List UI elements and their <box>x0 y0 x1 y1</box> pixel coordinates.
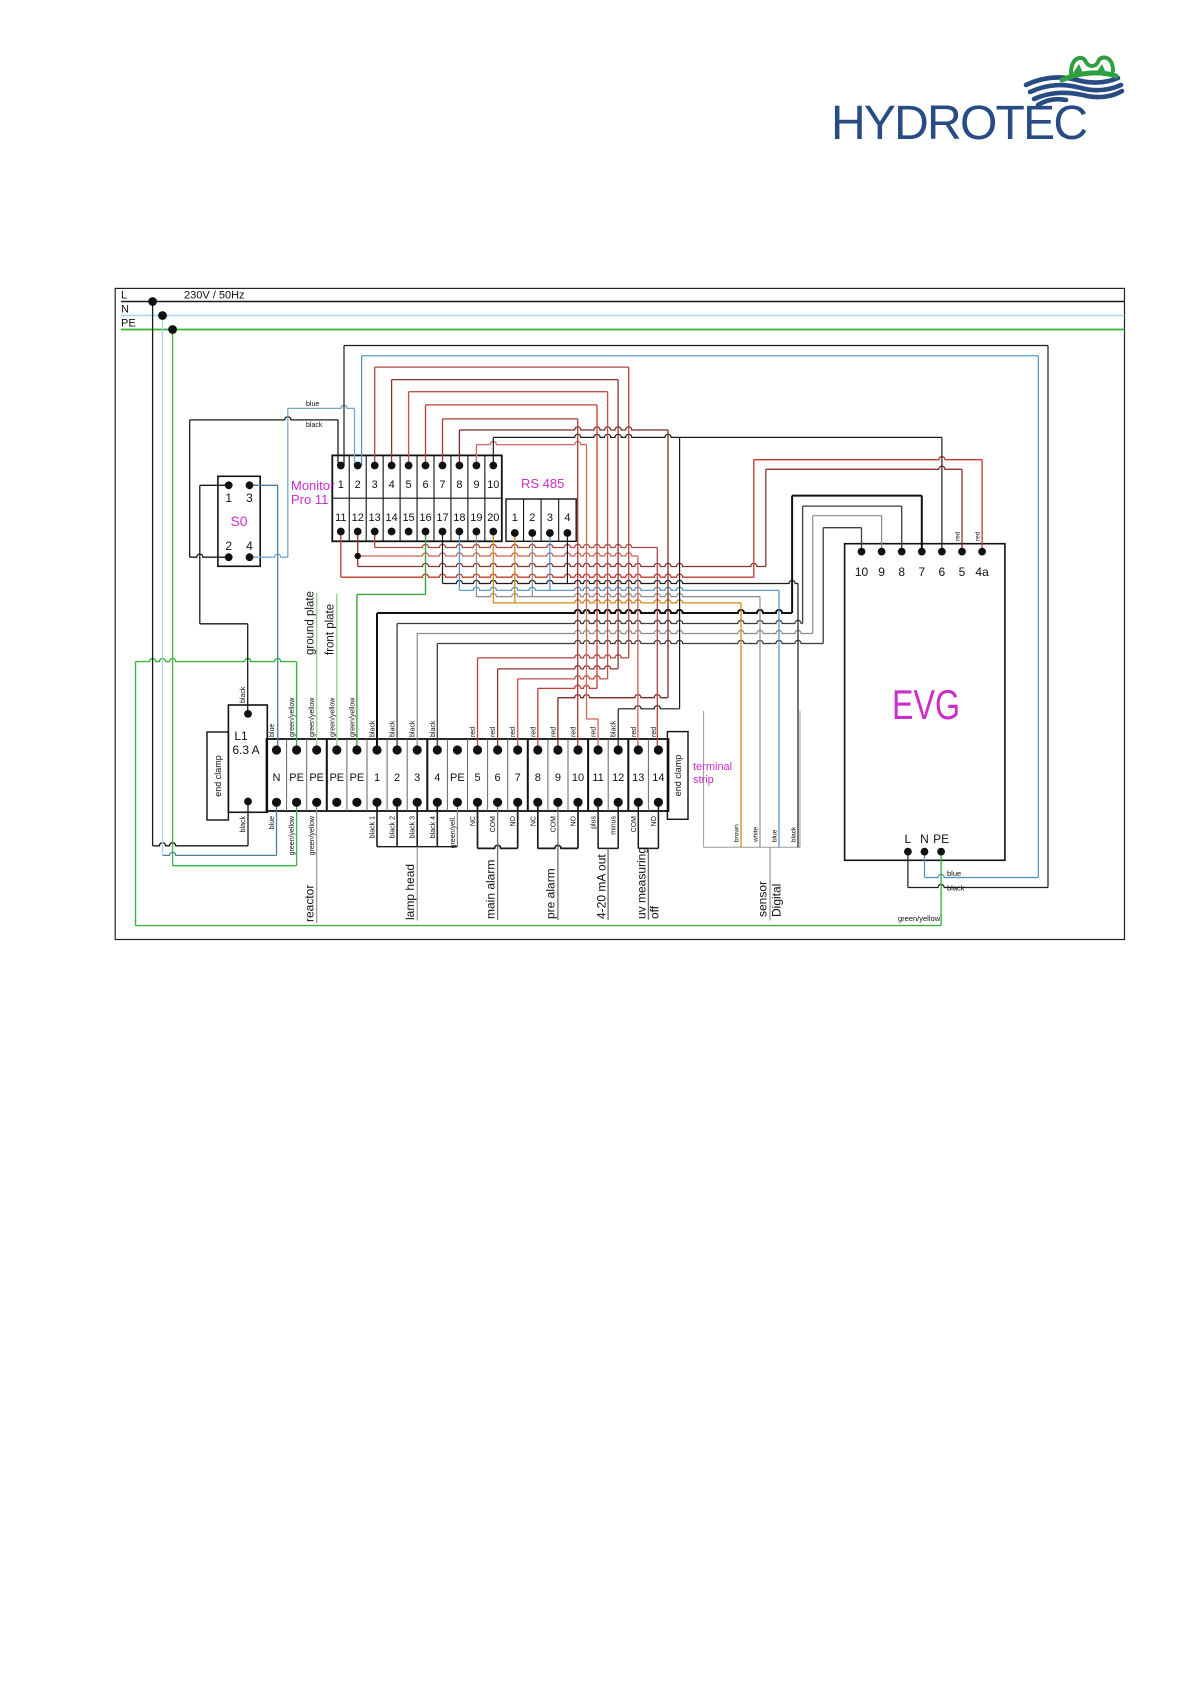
svg-text:red: red <box>490 727 497 737</box>
svg-text:black 1: black 1 <box>370 816 377 838</box>
svg-text:7: 7 <box>918 565 925 579</box>
svg-text:2: 2 <box>355 479 361 491</box>
svg-text:green/yellow: green/yellow <box>289 815 296 855</box>
svg-text:black: black <box>240 816 247 833</box>
svg-text:NO: NO <box>571 815 578 826</box>
svg-text:black 4: black 4 <box>430 816 437 838</box>
svg-text:red: red <box>530 727 537 737</box>
svg-text:PE: PE <box>289 772 304 784</box>
svg-text:20: 20 <box>487 512 499 524</box>
svg-text:sensor: sensor <box>756 881 770 917</box>
svg-text:green/yellow: green/yellow <box>349 697 356 737</box>
svg-text:Pro 11: Pro 11 <box>291 492 328 507</box>
svg-text:1: 1 <box>338 479 344 491</box>
svg-text:PE: PE <box>309 772 324 784</box>
svg-text:front plate: front plate <box>325 604 337 655</box>
svg-text:green/yellow: green/yellow <box>898 914 941 923</box>
svg-text:4: 4 <box>564 512 570 524</box>
svg-text:red: red <box>651 727 658 737</box>
svg-text:1: 1 <box>512 512 518 524</box>
svg-text:black: black <box>410 720 417 737</box>
svg-text:2: 2 <box>225 539 232 553</box>
svg-text:3: 3 <box>414 772 420 784</box>
svg-text:PE: PE <box>350 772 365 784</box>
svg-text:green/yellow: green/yellow <box>309 697 316 737</box>
svg-text:green/yellow: green/yellow <box>329 697 336 737</box>
svg-text:6: 6 <box>939 565 946 579</box>
svg-text:black 2: black 2 <box>390 816 397 838</box>
svg-text:6: 6 <box>422 479 428 491</box>
svg-text:uv measuring: uv measuring <box>635 847 649 919</box>
svg-text:230V / 50Hz: 230V / 50Hz <box>184 290 245 302</box>
svg-text:red: red <box>975 531 982 541</box>
svg-text:blue: blue <box>269 724 276 737</box>
svg-text:HYDROTEC: HYDROTEC <box>831 97 1088 150</box>
svg-text:3: 3 <box>547 512 553 524</box>
svg-text:red: red <box>631 727 638 737</box>
svg-text:black: black <box>791 826 798 842</box>
svg-text:end clamp: end clamp <box>213 755 223 797</box>
svg-text:green/yellow: green/yellow <box>309 815 316 855</box>
svg-text:N: N <box>273 772 281 784</box>
svg-text:2: 2 <box>529 512 535 524</box>
svg-text:6.3 A: 6.3 A <box>232 743 259 757</box>
svg-text:black 3: black 3 <box>410 816 417 838</box>
svg-text:black: black <box>430 720 437 737</box>
svg-text:COM: COM <box>490 816 497 833</box>
svg-text:9: 9 <box>878 565 885 579</box>
svg-text:NO: NO <box>510 815 517 826</box>
svg-text:Digital: Digital <box>770 884 784 917</box>
svg-text:3: 3 <box>372 479 378 491</box>
svg-text:green/yellow: green/yellow <box>289 697 296 737</box>
svg-text:12: 12 <box>352 512 364 524</box>
svg-text:Monitor: Monitor <box>291 478 335 493</box>
svg-text:plus: plus <box>591 816 598 829</box>
svg-text:13: 13 <box>369 512 381 524</box>
svg-text:black: black <box>306 422 323 429</box>
svg-text:strip: strip <box>693 774 714 786</box>
svg-text:10: 10 <box>487 479 499 491</box>
svg-text:reactor: reactor <box>303 885 317 922</box>
svg-text:9: 9 <box>473 479 479 491</box>
svg-text:PE: PE <box>329 772 344 784</box>
svg-text:red: red <box>571 727 578 737</box>
svg-text:1: 1 <box>374 772 380 784</box>
svg-text:blue: blue <box>306 401 319 408</box>
svg-text:black: black <box>370 720 377 737</box>
svg-text:11: 11 <box>335 512 346 524</box>
svg-text:PE: PE <box>450 772 465 784</box>
svg-text:10: 10 <box>855 565 869 579</box>
svg-text:18: 18 <box>453 512 465 524</box>
svg-text:ground plate: ground plate <box>305 591 317 655</box>
svg-text:white: white <box>753 826 760 843</box>
svg-text:COM: COM <box>550 816 557 833</box>
svg-text:19: 19 <box>470 512 482 524</box>
svg-text:S0: S0 <box>230 513 247 529</box>
svg-text:17: 17 <box>436 512 448 524</box>
svg-text:13: 13 <box>632 772 644 784</box>
svg-text:NO: NO <box>651 815 658 826</box>
svg-text:5: 5 <box>406 479 412 491</box>
svg-text:black: black <box>240 686 247 703</box>
svg-text:RS 485: RS 485 <box>521 476 564 491</box>
svg-text:4a: 4a <box>975 565 989 579</box>
svg-text:red: red <box>510 727 517 737</box>
svg-text:red: red <box>470 727 477 737</box>
svg-text:14: 14 <box>652 772 664 784</box>
svg-text:PE: PE <box>121 318 136 330</box>
svg-text:4-20 mA out: 4-20 mA out <box>595 854 609 919</box>
svg-text:8: 8 <box>456 479 462 491</box>
svg-text:4: 4 <box>434 772 440 784</box>
svg-text:11: 11 <box>592 772 603 784</box>
svg-text:L1: L1 <box>234 729 248 743</box>
svg-text:minus: minus <box>611 816 618 835</box>
svg-text:end clamp: end clamp <box>673 755 683 797</box>
svg-text:lamp head: lamp head <box>403 864 417 920</box>
svg-text:8: 8 <box>898 565 905 579</box>
svg-text:L: L <box>905 832 912 846</box>
svg-text:8: 8 <box>535 772 541 784</box>
svg-text:7: 7 <box>515 772 521 784</box>
svg-text:L: L <box>121 290 127 302</box>
svg-text:blue: blue <box>269 816 276 829</box>
svg-text:black: black <box>947 884 965 893</box>
svg-text:black: black <box>611 720 618 737</box>
svg-text:red: red <box>591 727 598 737</box>
svg-text:7: 7 <box>439 479 445 491</box>
svg-text:4: 4 <box>246 539 253 553</box>
svg-text:off: off <box>648 905 662 919</box>
svg-text:COM: COM <box>631 816 638 833</box>
svg-text:red: red <box>955 531 962 541</box>
svg-text:10: 10 <box>572 772 584 784</box>
svg-text:pre alarm: pre alarm <box>544 868 558 919</box>
svg-text:main alarm: main alarm <box>484 860 498 919</box>
svg-text:6: 6 <box>495 772 501 784</box>
svg-text:blue: blue <box>947 869 961 878</box>
svg-text:2: 2 <box>394 772 400 784</box>
svg-text:N: N <box>121 304 129 316</box>
svg-text:NC: NC <box>530 816 537 826</box>
svg-text:16: 16 <box>419 512 431 524</box>
svg-text:EVG: EVG <box>892 681 960 728</box>
svg-text:4: 4 <box>389 479 395 491</box>
svg-text:3: 3 <box>246 491 253 505</box>
svg-text:9: 9 <box>555 772 561 784</box>
svg-text:brown: brown <box>734 824 741 842</box>
svg-text:5: 5 <box>474 772 480 784</box>
svg-text:blue: blue <box>772 829 779 842</box>
svg-text:terminal: terminal <box>693 761 732 773</box>
svg-text:14: 14 <box>386 512 398 524</box>
svg-text:N: N <box>920 832 929 846</box>
svg-text:5: 5 <box>959 565 966 579</box>
svg-text:15: 15 <box>402 512 414 524</box>
svg-text:red: red <box>550 727 557 737</box>
svg-text:PE: PE <box>933 832 949 846</box>
svg-text:green/yell.: green/yell. <box>450 816 457 848</box>
svg-text:black: black <box>390 720 397 737</box>
svg-text:1: 1 <box>225 491 232 505</box>
svg-text:NC: NC <box>470 816 477 826</box>
svg-text:12: 12 <box>612 772 624 784</box>
